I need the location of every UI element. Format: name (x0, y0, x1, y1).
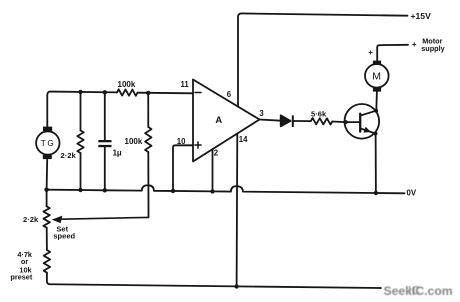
svg-text:11: 11 (181, 80, 190, 89)
svg-text:A: A (215, 115, 222, 126)
node +15V label (411, 11, 432, 21)
potentiometer 2.2k (set speed) (46, 190, 48, 206)
wire: pin 14 down to bottom wire (hops over 0V rail) (236, 134, 239, 287)
plus sign near motor (368, 48, 373, 57)
wire: 100k bottom down to wiper line (hops over 0V rail) (147, 152, 149, 217)
wire: rail right segment into pin 11 (138, 92, 194, 95)
svg-text:+: + (412, 40, 417, 49)
motor M (365, 61, 389, 92)
svg-text:14: 14 (239, 135, 248, 144)
wiper arrow and wire to 100k (61, 217, 149, 219)
junction dots on inverting-input rail (78, 90, 82, 94)
resistor R 100k (vertical, + input network) (147, 93, 149, 127)
capacitor C 1u (104, 92, 106, 141)
svg-text:0V: 0V (407, 189, 417, 198)
wire: inverting-input rail (TG top to pin 11) left segment (47, 92, 117, 127)
diode D1 (281, 115, 291, 126)
wire: pin 2 down to 0V rail (212, 149, 214, 191)
value label 100k (horizontal resistor) (118, 80, 136, 89)
value label 100k (vertical resistor) (125, 137, 143, 146)
value label 5.6k (311, 110, 327, 119)
resistor R 2.2k (vertical) (80, 92, 82, 131)
wire: motor supply lead (377, 45, 408, 61)
svg-text:1μ: 1μ (113, 149, 122, 158)
node 0V label (407, 189, 417, 198)
svg-text:5·6k: 5·6k (311, 110, 327, 119)
wire: emitter down to 0V rail (375, 134, 377, 194)
junction dot pin14/bottom wire (234, 284, 238, 288)
plus sign (pin 10 input) (195, 142, 201, 148)
svg-text:+15V: +15V (411, 11, 432, 21)
value label 1u (113, 149, 122, 158)
svg-text:SeekIC.com: SeekIC.com (384, 284, 453, 298)
value label 2.2k (61, 151, 77, 160)
wire: diode to 5.6k (294, 120, 311, 122)
preset resistor 4.7k/10k (46, 228, 48, 250)
wire: 0V rail with hops at x=148 and x=237 (47, 185, 405, 193)
svg-text:2·2k: 2·2k (61, 151, 77, 160)
wire: collector up to motor (375, 91, 378, 111)
svg-text:2·2k: 2·2k (23, 215, 39, 224)
wire: bottom wire from preset to right (47, 273, 381, 288)
junction dots on 0V rail (44, 188, 48, 192)
svg-text:6: 6 (227, 90, 232, 99)
label 4.7k or 10k preset (10, 250, 33, 282)
label Set speed (53, 225, 75, 241)
wire: TG bottom lead to 0V rail (46, 159, 49, 190)
svg-text:supply: supply (421, 44, 445, 53)
value label 2.2k (pot) (23, 215, 39, 224)
svg-text:M: M (372, 70, 381, 82)
op-amp A (193, 80, 260, 162)
svg-text:+: + (368, 48, 373, 57)
minus sign (pin 11 input) (195, 92, 201, 94)
wire: pin 10 stub down to 0V rail (173, 145, 193, 191)
wire: 5.6k to transistor base (332, 121, 345, 124)
svg-text:2: 2 (214, 148, 219, 157)
transistor Q1 (344, 104, 379, 139)
svg-text:100k: 100k (118, 80, 136, 89)
svg-text:TG: TG (41, 139, 56, 148)
resistor R 5.6k (311, 118, 333, 125)
svg-text:100k: 100k (125, 137, 143, 146)
svg-text:speed: speed (53, 232, 75, 241)
watermark SeekIC.com (384, 284, 453, 298)
svg-text:preset: preset (10, 273, 32, 282)
svg-text:3: 3 (259, 109, 264, 118)
wire: op-amp output pin 3 (260, 120, 281, 121)
tachogenerator TG (36, 127, 59, 160)
resistor R 100k (horizontal, feedback line) (117, 89, 138, 96)
label + Motor supply (412, 36, 446, 53)
wire: +15V rail with corner into pin 6 supply line (238, 13, 408, 106)
